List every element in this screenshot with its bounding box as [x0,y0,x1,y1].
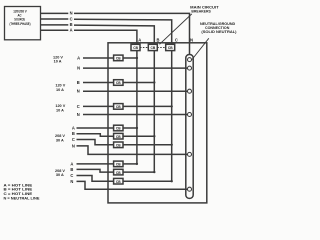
wire B to CB2 [83,82,114,84]
main circuit breaker A [131,44,140,50]
svg-text:CB: CB [116,135,121,139]
wire C jog to CB5c [77,176,114,182]
svg-text:(SOLID NEUTRAL): (SOLID NEUTRAL) [201,29,237,34]
svg-text:CB: CB [116,105,121,109]
bus A [136,51,138,164]
wire CB4b to bus B [123,135,154,137]
junction [153,81,155,83]
svg-text:10 A: 10 A [56,108,64,112]
branch breaker CB4b [114,133,123,139]
svg-text:B: B [72,131,75,136]
svg-text:10 A: 10 A [54,60,62,64]
svg-text:B: B [157,37,160,42]
neutral terminal G2 [188,89,192,93]
wire CB5a to bus A end [123,163,137,165]
svg-text:CB: CB [116,171,121,175]
svg-text:N = NEUTRAL LINE: N = NEUTRAL LINE [4,195,40,200]
wire A to CB5a [77,163,114,165]
svg-text:A: A [72,125,75,130]
svg-text:C: C [175,37,178,42]
svg-text:10 A: 10 A [56,88,64,92]
svg-text:C: C [70,173,73,178]
wire N to neutral bus [83,67,188,69]
svg-text:A: A [138,37,141,42]
junction [171,144,173,146]
wire N to neutral bus [83,114,188,116]
branch breaker CB5b [114,169,123,175]
neutral bus (solid neutral) [186,55,193,199]
neutral terminal G3 [188,113,192,117]
phase labels above main breakers [138,37,193,42]
svg-text:N: N [72,143,75,148]
junction [171,180,173,182]
branch breaker CB1 [114,55,123,61]
branch breaker CB4a [114,125,123,131]
pointer to neutral bus [192,38,209,59]
annotation: MAIN CIRCUIT BREAKERS [190,4,219,13]
wire N to neutral bus [83,90,188,92]
svg-text:CB: CB [116,81,121,85]
branch breaker CB4c [114,142,123,148]
neutral terminal G5 [188,187,192,191]
wire C to CB3 [83,105,114,107]
svg-text:CB: CB [116,57,121,61]
branch breaker CB5a [114,161,123,167]
legend [4,183,40,201]
svg-text:N: N [70,179,73,184]
wire A to CB1 [83,57,114,59]
wire CB5c to bus C end [123,180,172,182]
wire C jog to CB4c [77,140,114,145]
svg-text:N: N [70,11,73,16]
svg-text:(THREE-PHASE): (THREE-PHASE) [10,22,31,26]
junction [153,171,155,173]
wire N bypass to neutral bus [77,181,188,189]
neutral terminal G1 [188,66,192,70]
wire A from source [41,29,69,31]
junction [136,127,138,129]
svg-text:CB: CB [116,127,121,131]
wire CB4a to bus A [123,127,137,129]
bus B [153,51,155,173]
branch breaker CB5c [114,178,123,184]
main circuit breaker B [148,44,157,50]
wire B from source [41,24,69,26]
wire B jog to CB4b [77,134,114,136]
annotation: NEUTRAL/GROUND CONNECTION [200,21,237,34]
junction [153,135,155,137]
svg-text:CB: CB [151,46,156,50]
branch breaker CB2 [114,80,123,86]
wire A to CB4a [77,127,114,129]
svg-text:30 A: 30 A [56,173,64,177]
svg-text:N: N [77,112,80,117]
svg-text:A: A [70,161,73,166]
svg-text:N: N [77,89,80,94]
wire CB5b to bus B end [123,171,154,173]
source wire labels [70,11,73,33]
wire CB1 to bus A [123,57,137,59]
wire CB4c to bus C [123,144,172,146]
junction [136,57,138,59]
svg-text:N: N [190,37,193,42]
svg-text:B: B [77,80,80,85]
svg-text:208 V: 208 V [55,134,65,138]
main circuit breaker C [166,44,175,50]
breaker tie (dashed) [140,47,166,49]
junction [171,105,173,107]
junction [136,163,138,165]
neutral terminal top [188,58,192,62]
AC source box [5,7,41,40]
pointer to main breakers [160,14,192,44]
svg-text:CB: CB [116,144,121,148]
svg-text:C: C [70,16,73,21]
svg-text:CB: CB [116,180,121,184]
svg-text:A: A [77,55,80,60]
neutral terminal G4 [188,152,192,156]
svg-text:A: A [70,28,73,33]
bus C [171,51,173,182]
panel enclosure [108,43,207,203]
svg-text:30 A: 30 A [56,139,64,143]
branch breaker CB3 [114,104,123,110]
svg-text:CB: CB [133,46,138,50]
svg-text:C: C [77,104,80,109]
wire B jog to CB5b [77,169,114,172]
svg-text:B: B [70,167,73,172]
wire N bypass to neutral bus [77,146,188,155]
wire CB3 to bus C [123,105,172,107]
svg-text:CB: CB [168,46,173,50]
svg-text:CB: CB [116,163,121,167]
wire CB2 to bus B [123,82,154,84]
svg-text:N: N [77,65,80,70]
svg-text:C: C [72,137,75,142]
svg-text:BREAKERS: BREAKERS [191,8,211,13]
wire C from source [41,18,69,20]
wire N from source [41,12,69,14]
svg-text:B: B [70,22,73,27]
